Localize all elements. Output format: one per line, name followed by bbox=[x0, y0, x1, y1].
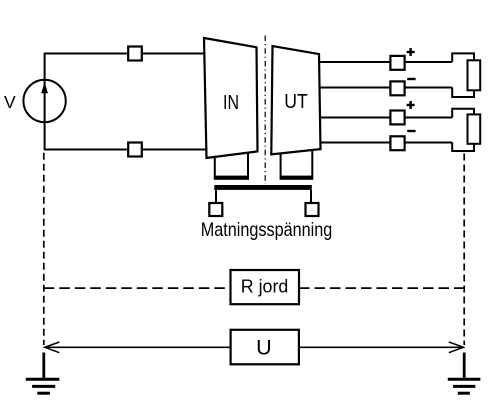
measurement line U right part bbox=[299, 346, 464, 348]
svg-text:Matningsspänning: Matningsspänning bbox=[201, 219, 333, 241]
polarity label - (wire 4) bbox=[407, 130, 415, 132]
output wire 3 (+) bbox=[319, 117, 452, 119]
ground symbol left bars bbox=[26, 379, 60, 393]
dashed horizontal line R jord left part bbox=[44, 287, 231, 289]
load resistor 2 bbox=[468, 114, 481, 143]
svg-text:IN: IN bbox=[223, 92, 239, 114]
output terminal square 1 bbox=[390, 56, 404, 70]
isolation amplifier output half UT bbox=[271, 46, 320, 154]
polarity label + (wire 3) bbox=[407, 101, 415, 109]
voltage box U bbox=[231, 330, 299, 365]
terminal square bottom-left bbox=[128, 143, 142, 157]
load resistor 1 bbox=[468, 60, 481, 90]
transformer coil box right (under UT) bbox=[280, 153, 282, 176]
resistor box R jord bbox=[231, 270, 300, 304]
transformer coil box left (under IN) bbox=[214, 156, 216, 177]
ground symbol right bars bbox=[448, 379, 481, 393]
terminal square top-left bbox=[128, 47, 142, 61]
isolation barrier dash-dot line bbox=[264, 36, 266, 185]
svg-text:V: V bbox=[4, 92, 16, 112]
polarity label - (wire 2) bbox=[407, 78, 415, 80]
load 1 top connection bbox=[452, 53, 474, 62]
ground symbol left stem bbox=[42, 353, 45, 379]
dashed horizontal line R jord right part bbox=[299, 287, 464, 289]
dashed vertical line right (ground reference) bbox=[463, 154, 465, 346]
output terminal square 4 bbox=[390, 136, 404, 150]
supply terminal square right bbox=[306, 203, 319, 216]
isolation amplifier input half IN bbox=[204, 38, 258, 158]
supply terminal square left bbox=[209, 203, 222, 216]
transformer coil bar left bbox=[214, 176, 249, 180]
transformer primary bar bbox=[214, 185, 311, 190]
output wire 4 (-) bbox=[320, 142, 452, 144]
measurement line U left part bbox=[45, 346, 231, 348]
ground symbol right stem bbox=[463, 353, 466, 379]
svg-text:UT: UT bbox=[284, 91, 308, 113]
svg-text:U: U bbox=[256, 336, 272, 360]
transformer coil bar right bbox=[280, 176, 314, 180]
output wire 1 (+) bbox=[319, 61, 453, 63]
load 2 bottom connection bbox=[452, 143, 474, 152]
output terminal square 2 bbox=[390, 81, 404, 95]
wire: left vertical through source bbox=[44, 54, 46, 150]
voltage source arrow head bbox=[41, 82, 48, 93]
output terminal square 3 bbox=[390, 111, 404, 125]
svg-text:R jord: R jord bbox=[241, 276, 288, 296]
supply lead right bbox=[310, 190, 312, 203]
arrow head right bbox=[449, 342, 464, 353]
wire: top left horizontal bbox=[44, 53, 205, 55]
output wire 2 (-) bbox=[319, 87, 452, 89]
dashed vertical line left (ground reference) bbox=[43, 153, 45, 345]
load 2 top connection bbox=[452, 109, 474, 118]
arrow head left bbox=[45, 342, 60, 353]
supply lead left bbox=[215, 190, 217, 203]
wire: bottom left horizontal bbox=[44, 149, 207, 151]
polarity label + (wire 1) bbox=[407, 48, 415, 56]
load 1 bottom connection bbox=[452, 88, 474, 98]
voltage source V circle bbox=[23, 80, 65, 122]
